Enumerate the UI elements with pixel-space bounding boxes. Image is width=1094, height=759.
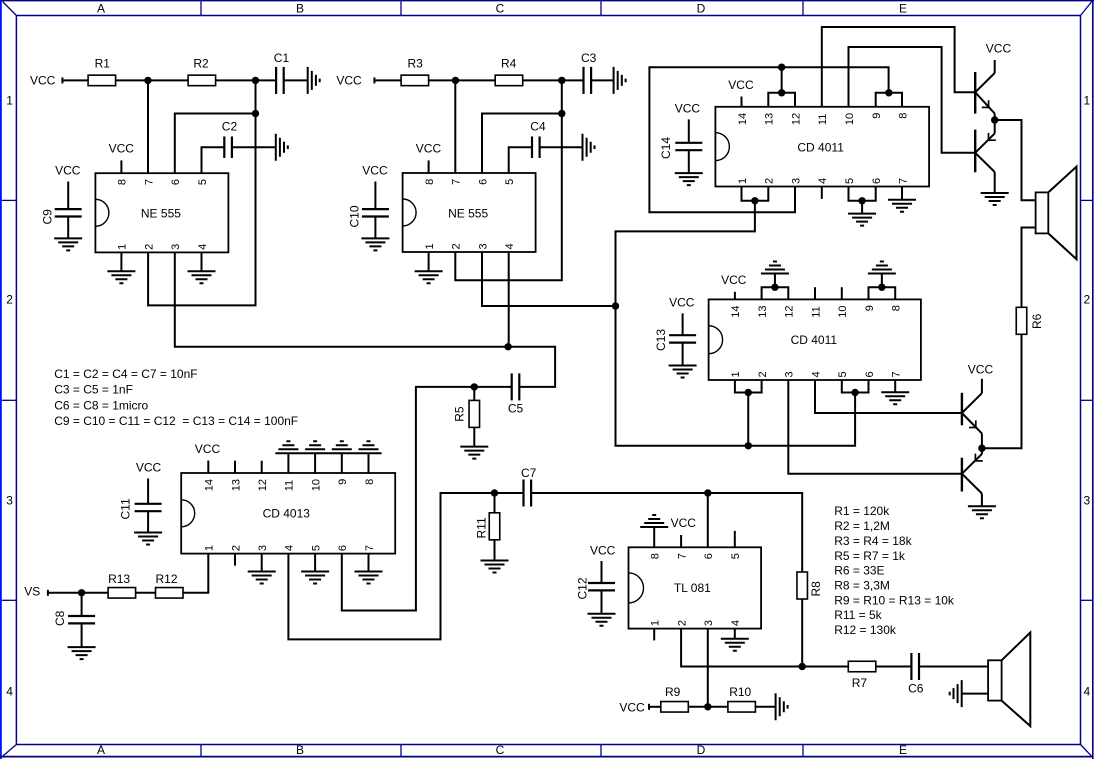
- transistor Q2 (PNP): [975, 120, 996, 172]
- capacitor C3: [581, 51, 597, 94]
- svg-text:4: 4: [6, 685, 13, 699]
- svg-text:5: 5: [504, 179, 516, 185]
- svg-text:6: 6: [477, 179, 489, 185]
- svg-text:12: 12: [790, 113, 802, 125]
- node pins13-12: [778, 89, 785, 96]
- svg-text:2: 2: [676, 620, 688, 626]
- resistor R13: [108, 572, 136, 598]
- power VCC (C9): [55, 164, 81, 210]
- svg-text:R3: R3: [408, 56, 424, 70]
- svg-text:VCC: VCC: [986, 41, 1012, 55]
- svg-text:CD 4013: CD 4013: [263, 506, 311, 520]
- svg-text:C5: C5: [508, 402, 524, 416]
- svg-text:CD 4011: CD 4011: [797, 140, 844, 154]
- ground up (U5 pin 9): [332, 441, 352, 449]
- svg-text:C8: C8: [53, 610, 67, 626]
- wire pin11 stub: [814, 287, 816, 299]
- svg-text:VCC: VCC: [669, 296, 695, 310]
- svg-text:12: 12: [257, 479, 269, 491]
- svg-text:9: 9: [871, 113, 883, 119]
- svg-text:R11: R11: [475, 517, 489, 538]
- ground (U1 pin 1): [107, 252, 135, 283]
- node pins1-2: [751, 197, 758, 204]
- svg-text:8: 8: [364, 479, 376, 485]
- svg-text:R1: R1: [95, 56, 111, 70]
- svg-text:14: 14: [204, 479, 216, 491]
- wire C5 loop: [508, 347, 555, 387]
- wire R8 bottom: [801, 599, 803, 667]
- node pins5-6: [858, 197, 865, 204]
- svg-text:3: 3: [257, 545, 269, 551]
- wire speaker to ground: [962, 693, 988, 695]
- resistor R4: [495, 56, 523, 85]
- svg-text:VCC: VCC: [195, 442, 221, 456]
- svg-text:R2: R2: [193, 56, 209, 70]
- svg-text:10: 10: [310, 479, 322, 491]
- power VCC (R1 input): [30, 73, 62, 87]
- wire: [591, 79, 614, 81]
- svg-text:11: 11: [284, 480, 296, 491]
- power VCC (U4 pin 14): [721, 273, 747, 299]
- wire pin3 down: [707, 629, 709, 707]
- ground (U5 pin 7): [355, 554, 383, 584]
- wire: [649, 706, 661, 708]
- svg-text:3: 3: [6, 494, 13, 508]
- wire pins1-2 bracket: [735, 380, 762, 446]
- wire: [523, 79, 584, 81]
- ground (C14): [675, 173, 703, 185]
- capacitor C13: [654, 329, 696, 351]
- wire pins9-8 bracket: [869, 274, 896, 300]
- wire pin11 to Q1 base: [822, 27, 975, 107]
- svg-text:A: A: [97, 743, 105, 757]
- ground up (U5 pin 11): [278, 441, 298, 449]
- speaker LS2: [988, 633, 1030, 727]
- svg-text:5: 5: [844, 178, 856, 184]
- wire pin10 stub: [841, 287, 843, 299]
- svg-text:1: 1: [6, 94, 13, 108]
- node pins1-2: [745, 389, 752, 396]
- node R11/C7: [491, 489, 498, 496]
- node R4/C3: [558, 77, 565, 84]
- svg-text:5: 5: [197, 179, 209, 185]
- svg-text:10: 10: [844, 113, 856, 125]
- wire to speaker 1: [995, 120, 1036, 200]
- svg-text:C1: C1: [274, 51, 290, 65]
- wire: [429, 79, 496, 81]
- svg-text:R9: R9: [665, 685, 681, 699]
- ground (C3): [614, 67, 626, 94]
- svg-text:2: 2: [143, 244, 155, 250]
- svg-text:R12 = 130k: R12 = 130k: [834, 623, 897, 637]
- ground (U6 pin 4): [721, 629, 749, 651]
- svg-text:R7: R7: [852, 676, 868, 690]
- node TL081 pin6: [704, 489, 711, 496]
- resistor R8: [797, 572, 823, 599]
- wire: [495, 492, 524, 494]
- ground (U1 pin 4): [188, 252, 216, 283]
- svg-text:VCC: VCC: [362, 164, 388, 178]
- capacitor C11: [119, 498, 162, 519]
- resistor R2: [188, 56, 216, 85]
- wire pin5 stub: [734, 531, 736, 547]
- svg-text:3: 3: [477, 243, 489, 249]
- svg-text:8: 8: [891, 305, 903, 311]
- node on top loop: [778, 63, 785, 70]
- ground up (U4 13-12): [761, 262, 789, 274]
- svg-text:R5: R5: [453, 406, 467, 422]
- svg-text:R2 = 1,2M: R2 = 1,2M: [834, 519, 890, 533]
- ground (R5): [460, 447, 488, 459]
- wire: [374, 217, 376, 239]
- resistor R1: [88, 56, 116, 85]
- wire: [531, 492, 708, 494]
- svg-text:4: 4: [730, 620, 742, 626]
- svg-text:8: 8: [117, 179, 129, 185]
- svg-text:CD 4011: CD 4011: [791, 333, 838, 347]
- svg-text:2: 2: [6, 293, 13, 307]
- ground (U5 pin 5): [301, 554, 329, 584]
- svg-text:VCC: VCC: [721, 273, 747, 287]
- svg-text:VCC: VCC: [671, 516, 697, 530]
- svg-text:VCC: VCC: [590, 544, 616, 558]
- svg-text:7: 7: [451, 179, 463, 185]
- wire pin3 output: [175, 252, 508, 346]
- svg-text:2: 2: [451, 243, 463, 249]
- wire: [474, 386, 512, 388]
- svg-text:R8 = 3,3M: R8 = 3,3M: [834, 578, 890, 592]
- wire: [136, 592, 156, 594]
- svg-text:B: B: [296, 2, 304, 16]
- wire pins1-2 bracket: [742, 187, 769, 201]
- node R8/pin2/R7: [799, 663, 806, 670]
- ground (C10): [361, 238, 389, 250]
- svg-text:1: 1: [424, 243, 436, 249]
- node pins5-6: [851, 389, 858, 396]
- wire pin7 to node: [147, 80, 149, 173]
- node pins9-8: [878, 284, 885, 291]
- resistor R7: [848, 661, 876, 690]
- svg-text:3: 3: [784, 371, 796, 377]
- svg-text:C9 = C10 = C11 = C12 = C13 =: C9 = C10 = C11 = C12 = C13 = C14 = 100nF: [54, 414, 298, 428]
- resistor R9: [661, 685, 689, 712]
- wire pins5-6 bracket: [849, 187, 876, 201]
- svg-text:NE 555: NE 555: [448, 207, 488, 221]
- wire: [876, 666, 912, 668]
- svg-text:3: 3: [1083, 494, 1090, 508]
- svg-text:14: 14: [730, 305, 742, 317]
- transistor Q3 (NPN): [962, 379, 982, 448]
- wire pin5 to C4: [509, 147, 532, 173]
- capacitor values note: [54, 367, 298, 428]
- node R3/R4/pin7: [452, 77, 459, 84]
- ground (C8): [68, 647, 96, 659]
- resistor values note: [834, 504, 955, 637]
- resistor R11: [475, 493, 500, 540]
- ground (C2): [276, 134, 288, 161]
- wire pins11-8 tie bar: [275, 453, 381, 473]
- wire: [688, 150, 690, 173]
- svg-text:C3 = C5 = 1nF: C3 = C5 = 1nF: [54, 383, 133, 397]
- capacitor C1: [274, 51, 290, 94]
- svg-text:4: 4: [197, 244, 209, 250]
- svg-text:2: 2: [1083, 293, 1090, 307]
- svg-text:1: 1: [117, 244, 129, 250]
- node R1/R2/pin7: [144, 77, 151, 84]
- wire to CD4013 pin6: [342, 387, 475, 611]
- wire: [473, 427, 475, 446]
- power VCC (C12): [590, 544, 616, 584]
- power VCC (Q1 collector): [986, 41, 1012, 55]
- resistor R10: [728, 685, 756, 712]
- ground (U4 pin 7): [881, 380, 909, 404]
- wire pins13-12 bracket: [768, 67, 795, 107]
- wire pin6: [482, 114, 562, 174]
- ground (C9): [54, 238, 82, 250]
- node pins13-12: [771, 284, 778, 291]
- svg-text:5: 5: [310, 545, 322, 551]
- power VCC (C11): [136, 461, 162, 504]
- wire pin4 stub: [821, 187, 823, 199]
- wire pin1 to R12: [183, 554, 208, 593]
- svg-text:14: 14: [737, 113, 749, 125]
- svg-text:6: 6: [864, 371, 876, 377]
- svg-text:R1 = 120k: R1 = 120k: [834, 504, 890, 518]
- svg-text:E: E: [899, 2, 907, 16]
- speaker LS1: [1036, 167, 1077, 260]
- svg-text:7: 7: [897, 178, 909, 184]
- svg-text:D: D: [697, 743, 706, 757]
- ground (C12): [588, 614, 616, 626]
- svg-text:VCC: VCC: [619, 701, 645, 715]
- capacitor C7: [521, 466, 537, 507]
- wire: [374, 79, 401, 81]
- power VCC (U3 pin 14): [728, 78, 754, 107]
- svg-text:A: A: [97, 2, 105, 16]
- wire: [147, 511, 149, 532]
- capacitor C4: [530, 120, 546, 158]
- svg-text:7: 7: [891, 371, 903, 377]
- capacitor C5: [508, 373, 524, 415]
- svg-text:3: 3: [170, 244, 182, 250]
- wire: [81, 623, 83, 647]
- wire: [284, 79, 308, 81]
- svg-text:VCC: VCC: [30, 73, 56, 87]
- ground (C13): [669, 366, 697, 378]
- svg-text:11: 11: [810, 306, 822, 317]
- wire pin6: [175, 114, 256, 174]
- power VCC (Q3 collector): [968, 363, 994, 377]
- wire: [494, 540, 496, 561]
- svg-text:R12: R12: [156, 572, 178, 586]
- power VCC (C13): [669, 296, 695, 336]
- wire pin4 to C7 net: [288, 493, 494, 639]
- node pin6 junction: [558, 110, 565, 117]
- ground (Q2 collector): [981, 172, 1009, 205]
- svg-text:12: 12: [784, 305, 796, 317]
- ground (R11): [481, 561, 509, 573]
- svg-text:C9: C9: [41, 209, 55, 225]
- svg-text:R3 = R4 = 18k: R3 = R4 = 18k: [834, 534, 912, 548]
- node output of 555 #2 joins: [612, 302, 619, 309]
- svg-text:R9 = R10 = R13 = 10k: R9 = R10 = R13 = 10k: [834, 593, 955, 607]
- ground (U3 pins 5-6): [848, 201, 876, 226]
- svg-text:C12: C12: [576, 577, 590, 599]
- ground (U2 pin 1): [415, 252, 443, 283]
- wire pins9-8 bracket: [876, 93, 902, 107]
- svg-text:4: 4: [504, 243, 516, 249]
- svg-text:7: 7: [143, 179, 155, 185]
- wire pin2 stub: [234, 554, 236, 566]
- svg-text:C3: C3: [581, 51, 597, 65]
- op-amp/timer U1 NE 555: [95, 173, 228, 252]
- wire: [688, 706, 728, 708]
- svg-text:VCC: VCC: [728, 78, 754, 92]
- svg-text:C2: C2: [222, 120, 238, 134]
- power VCC (U2 pin 8): [416, 142, 442, 173]
- power VCC (C10): [362, 164, 388, 210]
- svg-text:R6: R6: [1030, 313, 1044, 329]
- wire: [116, 79, 189, 81]
- wire: [755, 706, 775, 708]
- node 555#1 out / 555#2 reset: [504, 343, 511, 350]
- svg-text:11: 11: [817, 114, 829, 125]
- svg-text:C1 = C2 = C4 = C7 = 10nF: C1 = C2 = C4 = C7 = 10nF: [54, 367, 197, 381]
- logic IC U3 CD 4011: [715, 107, 929, 187]
- input VS: [24, 585, 48, 599]
- svg-text:8: 8: [650, 553, 662, 559]
- wire pins2-6 link: [455, 80, 562, 280]
- ground (C11): [134, 533, 162, 545]
- wire: [802, 666, 848, 668]
- svg-text:R13: R13: [108, 572, 130, 586]
- resistor R12: [156, 572, 184, 598]
- svg-text:5: 5: [837, 371, 849, 377]
- svg-text:3: 3: [703, 620, 715, 626]
- wire pin7 to node: [454, 80, 456, 173]
- wire pin6 up: [707, 493, 709, 547]
- svg-text:13: 13: [764, 113, 776, 125]
- svg-text:7: 7: [676, 553, 688, 559]
- power VCC (R9): [619, 701, 649, 715]
- node Q3/Q4 emitters: [978, 445, 985, 452]
- wire: [48, 592, 82, 594]
- wire pin3 output: [482, 252, 616, 306]
- capacitor C9: [41, 209, 82, 225]
- svg-text:C: C: [496, 743, 505, 757]
- capacitor C6: [908, 653, 924, 696]
- transistor Q4 (PNP): [962, 448, 983, 493]
- ground (C4): [583, 134, 595, 161]
- svg-text:E: E: [899, 743, 907, 757]
- svg-text:C7: C7: [521, 466, 537, 480]
- wire speaker to R6: [1022, 228, 1036, 308]
- logic IC U5 CD 4013: [181, 473, 395, 554]
- ground (R10): [776, 693, 788, 720]
- ground up (U4 9-8): [868, 262, 896, 274]
- svg-text:C10: C10: [348, 205, 362, 227]
- svg-text:R8: R8: [809, 581, 823, 597]
- svg-text:1: 1: [737, 178, 749, 184]
- svg-text:C: C: [496, 2, 505, 16]
- wire pins5-6 bracket: [842, 380, 869, 393]
- op-amp/timer U2 NE 555: [403, 173, 536, 252]
- ground (LS2): [950, 680, 962, 707]
- svg-text:13: 13: [230, 479, 242, 491]
- wire pin2 feedback: [681, 629, 802, 667]
- svg-text:1: 1: [650, 620, 662, 626]
- ground (U5 pin 3): [248, 554, 276, 584]
- wire: [540, 146, 583, 148]
- svg-text:D: D: [697, 2, 706, 16]
- svg-text:7: 7: [364, 545, 376, 551]
- transistor Q1 (NPN): [975, 60, 995, 120]
- svg-text:B: B: [296, 743, 304, 757]
- svg-text:NE 555: NE 555: [141, 207, 181, 221]
- logic IC U4 CD 4011: [709, 299, 921, 380]
- power VCC (R3 input): [336, 73, 374, 87]
- svg-text:C11: C11: [119, 498, 133, 519]
- svg-text:C6: C6: [908, 682, 924, 696]
- svg-text:10: 10: [837, 305, 849, 317]
- svg-text:R6 = 33E: R6 = 33E: [834, 564, 884, 578]
- capacitor C2: [222, 120, 238, 158]
- capacitor C10: [348, 205, 389, 227]
- wire: [62, 79, 88, 81]
- ground (C1): [308, 67, 320, 94]
- svg-text:R4: R4: [501, 56, 517, 70]
- ground (U3 pin 7): [888, 187, 916, 212]
- svg-text:VS: VS: [24, 585, 40, 599]
- wire pin3 loop: [649, 67, 888, 212]
- svg-text:VCC: VCC: [968, 363, 994, 377]
- svg-text:C13: C13: [654, 329, 668, 351]
- svg-text:9: 9: [864, 305, 876, 311]
- svg-text:3: 3: [790, 178, 802, 184]
- svg-text:4: 4: [817, 178, 829, 184]
- node pin6 junction: [252, 110, 259, 117]
- svg-text:1: 1: [1083, 94, 1090, 108]
- ground (Q4 collector): [968, 494, 996, 519]
- wire R6 to Q3/Q4 node: [982, 334, 1022, 448]
- node R9/R10/pin3: [704, 703, 711, 710]
- wire pin3 to Q4 base: [788, 380, 962, 474]
- op-amp U6 TL 081: [629, 547, 762, 628]
- svg-text:8: 8: [897, 113, 909, 119]
- svg-text:6: 6: [871, 178, 883, 184]
- node R2/C1: [252, 77, 259, 84]
- svg-text:2: 2: [764, 178, 776, 184]
- svg-text:C14: C14: [659, 137, 673, 159]
- wire pin5 to C2: [202, 147, 225, 173]
- svg-text:13: 13: [757, 305, 769, 317]
- svg-text:VCC: VCC: [416, 142, 442, 156]
- wire pins2-6 link: [148, 80, 255, 305]
- node on lower net: [745, 442, 752, 449]
- svg-text:4: 4: [284, 545, 296, 551]
- svg-text:1: 1: [730, 371, 742, 377]
- svg-text:C6 = C8 = 1micro: C6 = C8 = 1micro: [54, 398, 148, 412]
- svg-text:4: 4: [1083, 685, 1090, 699]
- svg-text:6: 6: [170, 179, 182, 185]
- ground up (U5 pin 10): [305, 441, 325, 449]
- wire: [216, 79, 277, 81]
- ground up (U5 pin 8): [359, 441, 379, 449]
- svg-text:R11 = 5k: R11 = 5k: [834, 608, 882, 622]
- wire pin10 to Q2 base: [849, 47, 976, 153]
- wire: [919, 666, 988, 668]
- svg-text:C4: C4: [530, 120, 546, 134]
